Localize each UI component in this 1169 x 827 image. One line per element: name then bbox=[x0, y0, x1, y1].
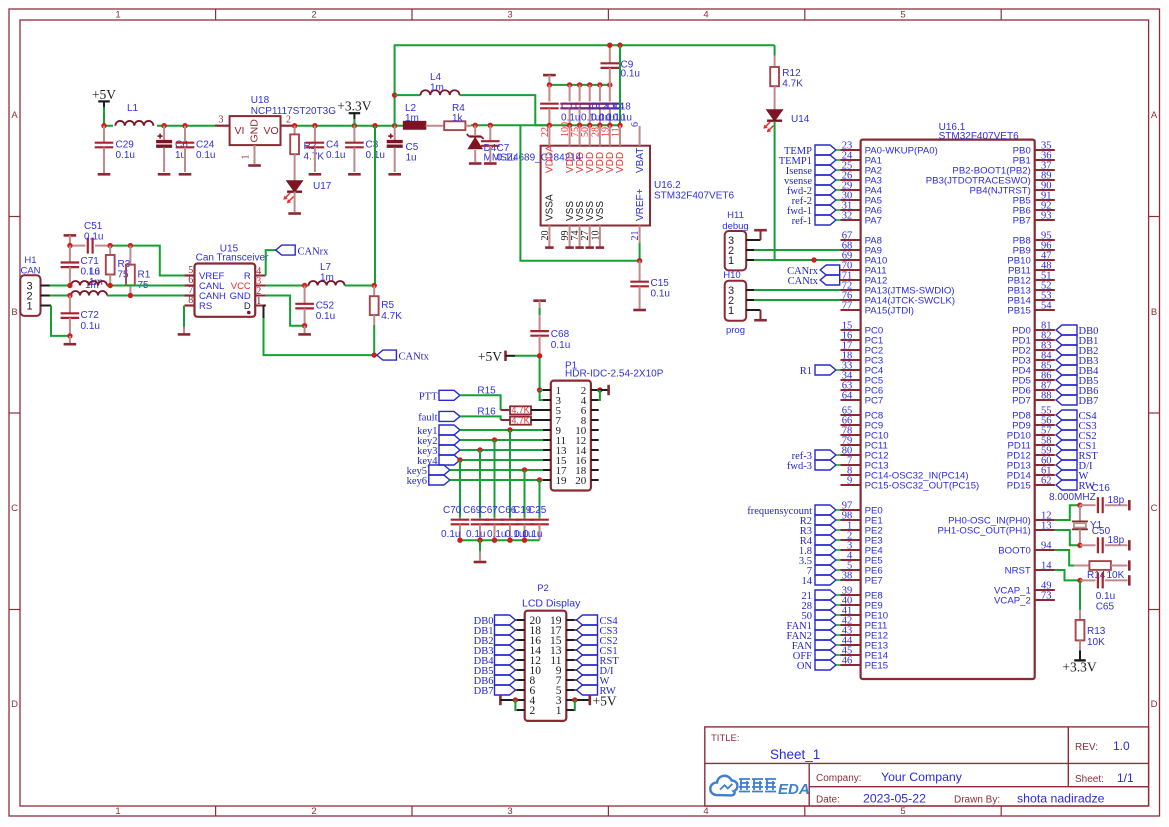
wire VDD node down to VREF bbox=[520, 125, 639, 260]
svg-text:Date:: Date: bbox=[816, 795, 840, 806]
svg-text:0.1u: 0.1u bbox=[81, 321, 100, 332]
svg-text:C11: C11 bbox=[561, 102, 579, 113]
svg-text:A: A bbox=[1151, 110, 1158, 121]
ground bar under C3 bbox=[348, 173, 361, 176]
svg-text:DB7: DB7 bbox=[1079, 396, 1099, 407]
svg-text:A: A bbox=[11, 110, 18, 121]
svg-text:shota nadiradze: shota nadiradze bbox=[1017, 792, 1105, 806]
svg-text:0.1u: 0.1u bbox=[441, 529, 460, 540]
resistor R14 bbox=[1087, 561, 1128, 581]
junction dot NRST node bbox=[1077, 578, 1082, 583]
header P1 bbox=[551, 361, 664, 491]
H11 pin3 wire to bar bbox=[746, 230, 767, 240]
svg-text:9: 9 bbox=[847, 476, 852, 487]
wire R16 to pin7 bbox=[531, 419, 543, 421]
resistor R1 bbox=[126, 246, 151, 296]
svg-text:NRST: NRST bbox=[1005, 565, 1031, 576]
svg-text:0.1u: 0.1u bbox=[116, 150, 135, 161]
svg-text:Company:: Company: bbox=[816, 773, 862, 784]
H10 pin3 wire to PA13 bbox=[746, 289, 840, 291]
H10 pin2 wire to PA14 bbox=[746, 299, 840, 301]
svg-text:3: 3 bbox=[507, 10, 512, 21]
svg-text:STM32F407VET6: STM32F407VET6 bbox=[939, 131, 1019, 142]
capacitor C15 bbox=[630, 261, 670, 309]
svg-text:4.7K: 4.7K bbox=[381, 311, 402, 322]
svg-text:32: 32 bbox=[842, 211, 853, 222]
svg-text:R1: R1 bbox=[138, 270, 151, 281]
net flag key4 bbox=[417, 455, 460, 467]
ground bar under D4 bbox=[469, 162, 482, 165]
junction dot key1 bbox=[507, 427, 512, 432]
svg-text:STM32F407VET6: STM32F407VET6 bbox=[654, 191, 734, 202]
svg-text:1k: 1k bbox=[452, 113, 464, 124]
ground bar under C7 bbox=[484, 162, 497, 165]
+3.3V flag under R13 bbox=[1062, 651, 1096, 675]
svg-text:TITLE:: TITLE: bbox=[711, 733, 740, 744]
svg-text:C5: C5 bbox=[406, 142, 419, 153]
svg-text:PD15: PD15 bbox=[1007, 480, 1031, 491]
net flags DB0-DB7 at P2 bbox=[474, 615, 517, 697]
bar right of C65 bbox=[1128, 575, 1131, 585]
net flag key1 bbox=[417, 425, 460, 437]
svg-text:RS: RS bbox=[199, 301, 212, 312]
ferrite bead L2 bbox=[404, 103, 426, 129]
svg-text:1: 1 bbox=[728, 255, 734, 267]
svg-text:U17: U17 bbox=[313, 181, 332, 192]
+3.3V power flag bbox=[337, 99, 371, 126]
svg-text:0.1u: 0.1u bbox=[196, 150, 215, 161]
svg-text:C71: C71 bbox=[81, 256, 100, 267]
svg-text:VSS: VSS bbox=[595, 201, 606, 221]
wire L4 to VDD node bbox=[460, 95, 536, 125]
junction dots VDD node bbox=[473, 123, 493, 128]
capacitors C11 C10 C12 C13 C14 C18 bbox=[540, 85, 619, 125]
wire pin11 feed bbox=[619, 45, 621, 125]
svg-text:PH1-OSC_OUT(PH1): PH1-OSC_OUT(PH1) bbox=[938, 525, 1031, 536]
JLCEDA logo bbox=[710, 776, 809, 798]
P2 pin4 gnd bar bbox=[500, 695, 518, 710]
svg-text:CANtx: CANtx bbox=[788, 276, 819, 287]
capacitor C51 bbox=[70, 221, 110, 254]
svg-text:ref-1: ref-1 bbox=[792, 216, 812, 227]
svg-text:0.1u: 0.1u bbox=[316, 311, 335, 322]
svg-text:13: 13 bbox=[1041, 521, 1052, 532]
terminal bar above C51 net bbox=[64, 235, 77, 245]
svg-text:38: 38 bbox=[842, 571, 853, 582]
capacitor C65 bbox=[1080, 572, 1128, 612]
svg-text:0.1u: 0.1u bbox=[551, 340, 570, 351]
wire GND pin elbow bbox=[266, 296, 305, 326]
svg-text:VBAT: VBAT bbox=[635, 148, 646, 173]
net flag key3 bbox=[417, 445, 460, 457]
title block bbox=[705, 727, 1149, 806]
connector H11 bbox=[722, 210, 748, 270]
key cap labels bbox=[441, 505, 547, 540]
wire key3 to P1 bbox=[460, 449, 543, 451]
svg-text:PA15(JTDI): PA15(JTDI) bbox=[865, 305, 914, 316]
junction dot key3 bbox=[477, 447, 482, 452]
svg-text:1: 1 bbox=[115, 10, 120, 21]
P1 pin2 +5V bar bbox=[597, 385, 608, 400]
svg-text:1.0: 1.0 bbox=[1113, 739, 1130, 753]
junction dot xtal bottom bbox=[1077, 543, 1082, 548]
svg-text:3: 3 bbox=[219, 115, 224, 126]
svg-text:C4: C4 bbox=[326, 140, 339, 151]
svg-text:U18: U18 bbox=[251, 95, 270, 106]
H10 pin1 wire to bar bbox=[746, 310, 767, 320]
svg-text:54: 54 bbox=[1041, 301, 1052, 312]
svg-text:CAN: CAN bbox=[20, 266, 40, 277]
wire key cap ground bus bbox=[460, 539, 540, 541]
resistor R12 bbox=[770, 45, 803, 110]
svg-text:C25: C25 bbox=[528, 505, 547, 516]
power block U16.2 bbox=[541, 146, 735, 226]
ground bar under C6 bbox=[158, 173, 171, 176]
junction dot L7 rail bbox=[372, 283, 377, 288]
svg-text:5: 5 bbox=[900, 10, 905, 21]
wire R15 to pin5 bbox=[531, 409, 543, 411]
svg-text:19: 19 bbox=[556, 475, 568, 487]
svg-text:ON: ON bbox=[797, 661, 813, 672]
svg-text:0.1u: 0.1u bbox=[497, 153, 516, 164]
junction dots CANL bbox=[67, 283, 113, 288]
MCU U16.1 bbox=[861, 122, 1035, 679]
svg-text:VDD: VDD bbox=[615, 152, 626, 173]
svg-text:5: 5 bbox=[900, 806, 905, 817]
svg-text:VO: VO bbox=[264, 125, 279, 137]
svg-text:R13: R13 bbox=[1087, 626, 1106, 637]
wire U18 output rail bbox=[281, 125, 404, 127]
CAN transceiver U15 bbox=[188, 244, 269, 317]
ground bar under C29 bbox=[98, 173, 111, 176]
capacitor C4 bbox=[306, 126, 346, 172]
wire D pin to CANtx bbox=[264, 306, 375, 356]
junction dot L4 tap bbox=[392, 92, 397, 97]
svg-text:prog: prog bbox=[726, 325, 745, 336]
capacitor C71 bbox=[61, 246, 100, 286]
junction dot C72 bottom bbox=[67, 333, 72, 338]
svg-text:10K: 10K bbox=[1087, 637, 1105, 648]
C52 ground bar bbox=[298, 326, 311, 335]
svg-text:BOOT0: BOOT0 bbox=[998, 545, 1031, 556]
capacitors C70 C69 C67 C66 C19 C25 bbox=[451, 518, 549, 541]
svg-text:4: 4 bbox=[703, 806, 708, 817]
svg-text:18p: 18p bbox=[1108, 535, 1125, 546]
resistor R13 bbox=[1076, 580, 1106, 650]
net flag PTT bbox=[419, 390, 460, 402]
svg-text:C24: C24 bbox=[196, 140, 215, 151]
capacitor C24 bbox=[176, 126, 216, 172]
P2 pin3 +5V bbox=[572, 694, 617, 711]
capacitor C5 bbox=[387, 126, 419, 172]
svg-text:C52: C52 bbox=[316, 301, 335, 312]
svg-text:+3.3V: +3.3V bbox=[337, 99, 371, 114]
svg-text:C51: C51 bbox=[84, 221, 103, 232]
connector H1 CAN bbox=[20, 255, 40, 316]
voltage regulator U18 bbox=[219, 95, 337, 160]
wire BOOT0 to R14 bbox=[1055, 550, 1090, 566]
svg-text:D: D bbox=[244, 301, 251, 312]
svg-text:fwd-3: fwd-3 bbox=[787, 461, 812, 472]
svg-text:PD7: PD7 bbox=[1012, 395, 1031, 406]
net flag fault bbox=[418, 411, 460, 423]
svg-text:1: 1 bbox=[556, 705, 562, 717]
U15 right pin stubs bbox=[255, 276, 266, 306]
svg-text:PTT: PTT bbox=[419, 391, 438, 402]
svg-text:0.1u: 0.1u bbox=[613, 113, 632, 124]
svg-text:0.1u: 0.1u bbox=[84, 232, 103, 243]
svg-text:D: D bbox=[1151, 699, 1158, 710]
svg-text:fault: fault bbox=[418, 412, 437, 423]
svg-text:1/1: 1/1 bbox=[1117, 771, 1134, 785]
ground bar under C15 bbox=[633, 309, 646, 312]
svg-text:Sheet_1: Sheet_1 bbox=[770, 747, 820, 762]
svg-text:14: 14 bbox=[802, 576, 813, 587]
svg-text:R5: R5 bbox=[381, 300, 394, 311]
svg-text:D: D bbox=[11, 699, 18, 710]
svg-text:C29: C29 bbox=[116, 140, 135, 151]
capacitor C3 bbox=[345, 126, 385, 172]
svg-text:62: 62 bbox=[1041, 476, 1052, 487]
H1 pin1 wire to C72 gnd bbox=[41, 306, 70, 336]
junction dot C52 top bbox=[302, 283, 307, 288]
svg-text:GND: GND bbox=[249, 119, 261, 143]
svg-text:0.1u: 0.1u bbox=[487, 529, 506, 540]
wire key5 to P1 bbox=[450, 469, 543, 471]
U16.2 VREF+ pin bbox=[630, 188, 646, 260]
header P2 LCD Display bbox=[522, 583, 581, 721]
svg-text:L4: L4 bbox=[430, 72, 442, 83]
svg-text:NCP1117ST20T3G: NCP1117ST20T3G bbox=[251, 106, 336, 117]
wire U14 to PA10 net bbox=[775, 121, 841, 260]
U16.1 right net flags DB CS bbox=[1056, 325, 1099, 492]
wire PH0 to xtal bbox=[1055, 505, 1080, 520]
svg-text:0.1u: 0.1u bbox=[466, 529, 485, 540]
P1 right stubs bbox=[591, 390, 599, 480]
frame letter B left bbox=[0, 0, 1, 1]
U16.1 right pins PB PD PH bbox=[926, 141, 1055, 607]
capacitor C52 bbox=[295, 286, 335, 326]
svg-text:C72: C72 bbox=[81, 310, 100, 321]
ground bar under U17 bbox=[288, 212, 301, 215]
wire L2 to R4 bbox=[426, 125, 445, 127]
junction dots CANH bbox=[67, 293, 133, 298]
resistor R5 bbox=[370, 286, 402, 356]
capacitor C7 bbox=[481, 125, 516, 163]
junction dots P1 +5V bbox=[537, 353, 542, 393]
wire R pin to CANrx flag bbox=[266, 250, 276, 275]
wire VCC to L7 bbox=[266, 285, 309, 287]
svg-text:C65: C65 bbox=[1096, 602, 1115, 613]
inductor L7 bbox=[309, 262, 345, 286]
junction dot key2 bbox=[492, 437, 497, 442]
svg-text:22: 22 bbox=[540, 127, 551, 137]
H1 pin3 wire bbox=[41, 285, 70, 287]
wire L7 to rail bbox=[345, 285, 375, 287]
svg-text:1m: 1m bbox=[430, 83, 444, 94]
svg-text:2: 2 bbox=[311, 806, 316, 817]
svg-text:P2: P2 bbox=[537, 583, 549, 594]
junction dots output rail bbox=[292, 123, 397, 128]
wire +5V rail bbox=[104, 125, 230, 127]
svg-text:10K: 10K bbox=[1107, 570, 1125, 581]
inductor L6 labels bbox=[85, 267, 103, 292]
junction dots VDD pin bus bbox=[547, 123, 623, 128]
svg-text:EDA: EDA bbox=[778, 781, 810, 798]
svg-text:0.1u: 0.1u bbox=[621, 69, 640, 80]
U16.1 left net flags bbox=[747, 145, 840, 672]
junction dots on +5V rail bbox=[101, 123, 187, 128]
svg-text:1u: 1u bbox=[406, 153, 417, 164]
U16.2 VBAT stub bbox=[639, 126, 641, 146]
svg-text:C6: C6 bbox=[175, 140, 188, 151]
svg-text:L1: L1 bbox=[127, 103, 139, 114]
net flag CANtx bbox=[377, 350, 430, 362]
svg-text:0.1u: 0.1u bbox=[1096, 591, 1115, 602]
resistor R4 bbox=[444, 103, 465, 130]
U16.2 bottom pins VSSA VSS bbox=[540, 194, 606, 248]
svg-text:94: 94 bbox=[1041, 541, 1052, 552]
svg-text:1: 1 bbox=[728, 305, 734, 317]
junction dot key6 bbox=[537, 477, 542, 482]
resistor R2 bbox=[290, 126, 324, 181]
P2 right stubs bbox=[566, 620, 574, 710]
svg-text:C: C bbox=[11, 503, 18, 514]
svg-text:+5V: +5V bbox=[593, 694, 617, 709]
svg-text:77: 77 bbox=[842, 301, 853, 312]
svg-text:4.7K: 4.7K bbox=[782, 79, 803, 90]
net flag key6 bbox=[407, 475, 450, 487]
svg-text:+3.3V: +3.3V bbox=[1062, 660, 1096, 675]
wire key2 to P1 bbox=[460, 439, 543, 441]
H11 pin2 wire to PA9 bbox=[746, 249, 840, 251]
wire fault to R16 bbox=[460, 416, 510, 420]
svg-text:PC15-OSC32_OUT(PC15): PC15-OSC32_OUT(PC15) bbox=[865, 480, 980, 491]
svg-text:key6: key6 bbox=[407, 476, 427, 487]
wire PTT to R15 bbox=[460, 395, 510, 410]
ground bar under C5 bbox=[388, 173, 401, 176]
bar right of R14 bbox=[1128, 560, 1131, 570]
svg-text:PE7: PE7 bbox=[865, 575, 883, 586]
svg-text:0.1u: 0.1u bbox=[326, 150, 345, 161]
P1 left stubs bbox=[543, 390, 551, 480]
svg-text:CANrx: CANrx bbox=[298, 246, 330, 257]
svg-text:VI: VI bbox=[235, 125, 245, 137]
junction dot VREF node bbox=[637, 258, 642, 263]
svg-text:debug: debug bbox=[722, 221, 748, 232]
svg-text:64: 64 bbox=[842, 391, 853, 402]
svg-text:PE15: PE15 bbox=[865, 660, 888, 671]
wire key6 to P1 bbox=[450, 479, 543, 481]
wire key cap verticals bbox=[460, 430, 540, 518]
svg-text:B: B bbox=[11, 307, 17, 318]
svg-text:H11: H11 bbox=[727, 210, 744, 221]
svg-text:VDDA: VDDA bbox=[545, 145, 556, 173]
svg-text:93: 93 bbox=[1041, 211, 1052, 222]
bar right of C50 bbox=[1128, 540, 1131, 550]
wire C51 right net bbox=[110, 246, 184, 276]
junction dot C52 bottom bbox=[302, 323, 307, 328]
ground bar under C24 bbox=[179, 173, 192, 176]
svg-text:H10: H10 bbox=[723, 270, 740, 281]
H1 pin2 wire bbox=[41, 295, 70, 297]
wire PH1 to xtal bbox=[1055, 530, 1080, 545]
svg-text:PB15: PB15 bbox=[1007, 305, 1030, 316]
svg-text:C67: C67 bbox=[480, 505, 499, 516]
svg-text:4: 4 bbox=[703, 10, 708, 21]
junction dot xtal top bbox=[1077, 503, 1082, 508]
wire to L4 bbox=[395, 94, 421, 96]
junction dots C51 net bbox=[67, 243, 133, 248]
svg-text:+5V: +5V bbox=[478, 349, 502, 364]
junction dot CANtx node bbox=[372, 352, 377, 357]
svg-text:75: 75 bbox=[118, 270, 130, 281]
H11 pin1 wire to PA10 net bbox=[746, 259, 774, 261]
svg-text:20: 20 bbox=[575, 475, 587, 487]
inductor L4 bbox=[421, 72, 460, 95]
svg-text:R15: R15 bbox=[477, 386, 496, 397]
P2 left stubs bbox=[517, 620, 525, 710]
svg-text:C3: C3 bbox=[366, 140, 379, 151]
svg-text:8.000MHZ: 8.000MHZ bbox=[1049, 492, 1096, 503]
inductor L1 bbox=[113, 103, 157, 128]
wire NRST node bbox=[1055, 570, 1080, 580]
svg-text:1m: 1m bbox=[320, 273, 334, 284]
U16.1 left pins PA PC PE bbox=[841, 141, 980, 672]
svg-text:2: 2 bbox=[311, 10, 316, 21]
svg-text:R12: R12 bbox=[782, 68, 801, 79]
net flag key5 bbox=[407, 465, 450, 477]
capacitor C9 bbox=[601, 45, 640, 85]
svg-text:PA7: PA7 bbox=[865, 215, 882, 226]
ground bar under C4 bbox=[309, 173, 322, 176]
svg-text:R1: R1 bbox=[800, 366, 812, 377]
crystal Y1 bbox=[1072, 505, 1111, 545]
inductor CANH coil bbox=[71, 291, 107, 296]
svg-text:R16: R16 bbox=[477, 406, 496, 417]
svg-text:C68: C68 bbox=[551, 329, 570, 340]
svg-text:Your Company: Your Company bbox=[881, 770, 963, 784]
wire +3.3V vertical rail bbox=[374, 126, 376, 286]
svg-text:46: 46 bbox=[842, 656, 853, 667]
wire pin1 bbox=[540, 389, 543, 391]
zener diode D4 bbox=[467, 125, 582, 163]
svg-text:1m: 1m bbox=[405, 113, 419, 124]
capacitor C29 bbox=[95, 126, 135, 173]
svg-text:CANtx: CANtx bbox=[399, 351, 430, 362]
net flag CANtx at PA12 bbox=[788, 275, 841, 287]
junction dot key5 bbox=[522, 467, 527, 472]
U15 left pin stubs bbox=[184, 276, 194, 306]
wire cap-top bus bbox=[549, 84, 609, 86]
svg-text:U16.2: U16.2 bbox=[654, 180, 681, 191]
svg-text:Sheet:: Sheet: bbox=[1075, 774, 1104, 785]
inductor CANL coil bbox=[71, 281, 107, 286]
svg-text:C: C bbox=[1151, 503, 1158, 514]
svg-text:REV:: REV: bbox=[1075, 742, 1098, 753]
svg-text:1: 1 bbox=[26, 300, 32, 312]
svg-text:VREF+: VREF+ bbox=[635, 188, 646, 221]
svg-text:HDR-IDC-2.54-2X10P: HDR-IDC-2.54-2X10P bbox=[565, 368, 664, 379]
svg-text:14: 14 bbox=[1041, 561, 1052, 572]
capacitor C16 bbox=[1080, 495, 1128, 513]
svg-text:3: 3 bbox=[507, 806, 512, 817]
svg-text:73: 73 bbox=[1041, 591, 1052, 602]
resistor R15 4.7K bbox=[477, 386, 531, 416]
wire R4 output VDD node bbox=[465, 124, 549, 126]
net flag key2 bbox=[417, 435, 460, 447]
LED U17 bbox=[283, 181, 331, 212]
